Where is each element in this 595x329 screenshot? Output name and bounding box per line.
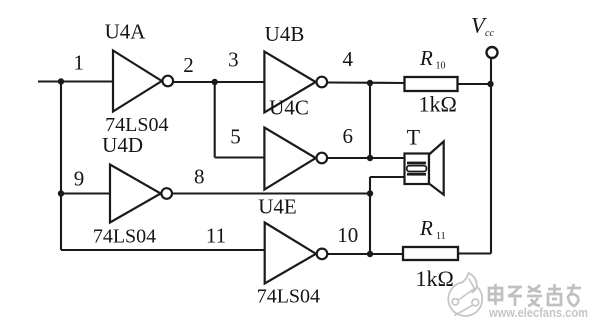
wire vertical node 4 to node 6 (369, 83, 371, 158)
wire left vertical bus (60, 82, 62, 251)
wire U4A output node 2 to U4B input pin 3 (174, 81, 265, 83)
speaker coil bars (407, 162, 426, 176)
inverter U4B (264, 52, 327, 113)
wire input stub to pin 1 (38, 80, 113, 82)
watermark logo circle (448, 273, 482, 316)
junction node 10 (367, 251, 373, 257)
wire speaker bottom terminal (370, 176, 405, 178)
svg-text:11: 11 (436, 231, 446, 242)
wire R10 to Vcc rail (458, 83, 492, 85)
svg-text:1kΩ: 1kΩ (416, 266, 454, 291)
resistor R11 (403, 247, 458, 260)
wire pin 9 stub (61, 192, 110, 194)
wire U4C output node 6 to speaker (328, 157, 405, 159)
wire vertical speaker to node 10 (369, 177, 371, 254)
svg-text:www.elecfans.com: www.elecfans.com (488, 305, 588, 320)
Vcc terminal (487, 47, 498, 58)
wire U4D output node 8 (173, 192, 371, 194)
junction Vcc-R10 (487, 81, 493, 87)
svg-text:3: 3 (228, 48, 239, 72)
svg-text:1: 1 (73, 51, 84, 75)
inverter U4A (113, 51, 173, 112)
junction node 3/5 (212, 79, 218, 85)
svg-text:5: 5 (230, 125, 241, 149)
svg-text:U4C: U4C (269, 96, 309, 120)
wire U4E output node 10 to R11 (328, 253, 404, 255)
junction node 1 (58, 78, 64, 84)
wire U4B output node 4 to R10 (328, 81, 405, 84)
inverter U4C (264, 128, 327, 190)
watermark text 电子发烧友 (simplified strokes) (489, 284, 581, 306)
inverter U4D (110, 165, 172, 223)
svg-text:6: 6 (342, 124, 353, 148)
inverter U4E (265, 223, 328, 284)
svg-text:cc: cc (485, 28, 494, 39)
svg-text:R: R (419, 46, 433, 70)
junction node 6 (367, 155, 373, 161)
svg-text:74LS04: 74LS04 (257, 286, 320, 308)
svg-text:74LS04: 74LS04 (93, 225, 156, 247)
wire R11 to Vcc rail (458, 252, 491, 254)
svg-text:R: R (419, 216, 433, 240)
svg-text:10: 10 (436, 61, 446, 72)
svg-text:9: 9 (74, 167, 85, 191)
svg-text:U4E: U4E (258, 195, 297, 219)
svg-text:U4A: U4A (105, 20, 147, 44)
wire pin 5 stub (215, 156, 265, 158)
junction node 4 (367, 80, 373, 86)
svg-text:1kΩ: 1kΩ (419, 92, 457, 117)
svg-text:4: 4 (342, 47, 353, 71)
svg-text:U4B: U4B (265, 22, 305, 46)
junction node 8 (367, 190, 373, 196)
wire Vcc vertical rail (490, 59, 492, 254)
svg-text:T: T (407, 125, 421, 150)
resistor R10 (405, 77, 458, 91)
wire branch vertical node 2 to pin 5 (214, 82, 216, 158)
svg-text:U4D: U4D (102, 133, 143, 157)
svg-text:2: 2 (183, 53, 194, 77)
svg-text:10: 10 (337, 223, 358, 247)
svg-text:11: 11 (206, 223, 226, 247)
speaker T (405, 142, 444, 195)
wire bottom feedback to pin 11 (61, 249, 265, 251)
junction node 9 (58, 190, 64, 196)
svg-text:8: 8 (194, 165, 205, 189)
speaker slot (407, 166, 427, 172)
